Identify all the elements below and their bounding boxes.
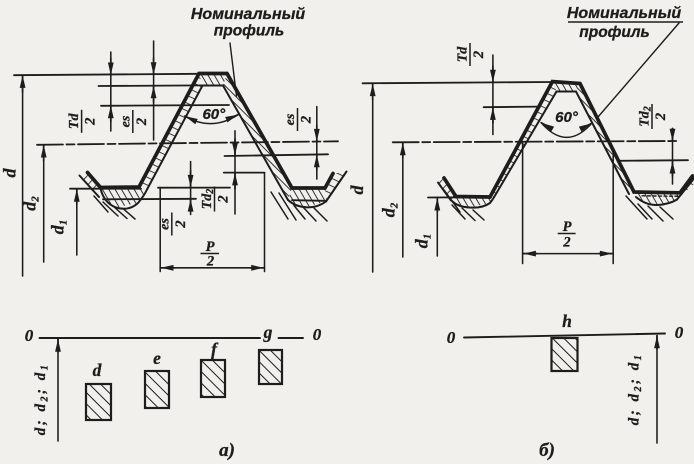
svg-text:2: 2 [562,235,570,251]
right figure: leader line [598,23,679,117]
right figure: label Td/2 rotated [456,43,488,66]
svg-text:2: 2 [83,118,99,126]
left figure: hatch band far-left stub [80,173,101,194]
left figure: dimension es/2 root with arrows [190,162,192,215]
left figure: hatch band crest [199,74,227,86]
bottom left: tolerance zone d [86,384,111,420]
left figure: tolerance stub far-left [80,176,100,198]
svg-text:2: 2 [299,116,315,124]
svg-text:0: 0 [313,325,322,344]
right figure: P/2 dimension line with arrows [523,253,614,255]
right figure: dimension Td/2 with arrows [492,55,494,135]
svg-text:Td: Td [456,46,471,63]
left figure: label d rotated [0,168,20,178]
svg-text:d: d [93,360,102,380]
left figure: hatch band right root [288,188,326,207]
svg-text:а): а) [219,440,235,461]
left figure: label es/2 rotated (crest) [118,110,150,133]
left figure: P/2 left extension [159,189,161,272]
right figure: line d2-Td2 [618,159,688,162]
svg-text:60°: 60° [202,106,226,123]
left figure: shading strokes outside right-root flank [271,192,296,220]
left figure: line d2+es [225,154,329,156]
right figure: tolerance profile left root arc [452,197,494,207]
left figure: dimension Td2/2 with arrows [234,131,236,214]
svg-text:0: 0 [675,323,684,342]
left figure: line d2-Td2 [224,172,265,174]
left figure: label d2 rotated [20,196,42,211]
left figure: line d-Td [101,104,229,107]
svg-text:2: 2 [173,220,189,228]
bottom left: label d;d2;d1 rotated [33,363,51,436]
svg-text:60°: 60° [555,109,579,126]
right figure: tolerance profile right root arc [636,197,677,205]
right figure: hatch band far-left stub [438,178,456,201]
right figure: dimension Td2/2 with arrows [672,129,674,185]
right figure: line d-Td [484,106,540,109]
right figure: dimension d2 vertical with arrow [402,143,404,257]
left figure: line d1 reference at root [158,187,230,189]
left figure: leader line [230,43,237,96]
right figure: dimension d vertical with arrow [372,84,374,272]
bottom left: tolerance zone e [145,371,169,408]
svg-text:e: e [153,348,161,368]
left figure: label Td2/2 rotated [200,187,232,212]
left figure: tolerance profile right root arc [288,200,326,207]
right figure: tolerance stub far-left [438,183,451,201]
right figure: shading strokes below right root [626,196,673,221]
left figure: line d crest extension [14,74,199,75]
svg-text:h: h [562,311,572,331]
svg-text:Td: Td [67,113,82,130]
right figure: pitch line d2 dash-dot [393,141,679,142]
right figure: hatch band crest [552,82,580,92]
left figure: label es/2 rotated (root) [157,213,189,236]
right figure: hatch band far-right stub [677,175,694,200]
right figure: label d rotated [347,185,367,195]
right figure: tolerance stub far-right [677,179,694,200]
left figure: hatch band right flank [223,74,292,201]
svg-text:2: 2 [471,51,487,59]
bottom left: axis 0-0 [40,337,261,339]
left figure: pitch line d2 dash-dot [37,141,338,145]
left figure: tolerance profile inner flanks and crest [147,86,288,201]
left figure: P/2 dimension line with arrows [160,267,264,269]
svg-text:es: es [118,115,133,127]
svg-text:б): б) [539,440,555,461]
left figure: label d1 rotated [48,220,70,235]
svg-text:Номинальный: Номинальный [567,5,681,22]
right figure: dimension d1 vertical with arrow [436,198,438,256]
svg-text:2: 2 [653,113,669,121]
svg-text:0: 0 [447,328,456,347]
right figure: tolerance profile inner flanks and crest [494,92,629,198]
svg-text:es: es [283,113,298,125]
left figure: hatch band far-right stub [325,172,347,202]
svg-text:es: es [157,218,172,230]
right figure: hatch band left root [452,197,494,208]
svg-text:2: 2 [134,118,150,126]
svg-text:2: 2 [216,195,232,203]
right figure: line d1 [428,196,470,198]
bottom left: arrow for d;d2;d1 [57,339,59,441]
left figure: hatch band left flank [139,74,203,190]
bottom right: axis 0-0 [464,334,665,338]
right figure: label d2 rotated [379,202,401,217]
svg-text:0: 0 [25,326,34,345]
right figure: P/2 left extension [522,142,524,264]
left figure: dimension es/2 pitch-right with arrows [316,107,318,180]
left figure: tolerance stub far-right [326,172,347,202]
svg-text:P: P [563,219,572,235]
left figure: P/2 right extension [264,173,266,272]
left figure: 60 degree arc with arrows [185,115,239,124]
left figure: shading strokes below right root [294,206,327,222]
left figure: chord line right root [292,199,325,202]
left figure: nominal thread profile (thick) [88,74,334,189]
left figure: line d1+es [103,198,196,201]
svg-text:профиль: профиль [579,24,649,41]
right figure: hatch band right flank [576,84,634,195]
svg-text:Номинальный: Номинальный [191,6,305,23]
bottom right: label d;d2;d1 rotated [627,353,645,426]
left figure: dimension d1 vertical with arrow [76,190,78,256]
bottom right: arrow for d;d2;d1 [656,336,658,444]
right figure: dashed chord right root [642,195,678,198]
svg-text:d: d [0,168,20,178]
left figure: label es/2 rotated (pitch right) [283,108,315,131]
left figure: shading strokes below left root [94,196,135,219]
right figure: hatch band right root [634,192,680,205]
right figure: 60 degree arc with arrows [541,123,592,138]
left figure: dimension es/2 crest with arrows [153,41,155,140]
left figure: label Td/2 rotated [67,110,99,133]
svg-text:g: g [263,322,273,342]
left figure: line d1 [70,188,141,190]
right figure: line d crest extension [363,82,553,83]
left figure: tolerance profile left root arc [101,189,148,209]
left figure: dimension d2 vertical with arrow [43,146,45,263]
right figure: hatch band left flank [490,82,557,198]
right figure: underline of label [568,21,683,23]
right figure: shading strokes below left root [444,190,484,221]
right figure: label Td2/2 rotated [638,104,670,129]
left figure: hatch band left root [98,187,147,208]
bottom right: tolerance zone h [552,338,578,371]
bottom left: tolerance zone g [259,350,282,384]
svg-text:2: 2 [206,254,214,270]
svg-text:d: d [347,185,367,195]
right figure: label d1 rotated [412,234,434,249]
right figure: nominal thread profile (thick) [444,82,693,197]
right figure: P/2 right extension [612,148,614,263]
left figure: dimension d vertical with arrow [22,76,24,276]
left figure: line d+es [99,84,203,87]
left figure: dimension Td/2 with arrows [110,52,112,131]
bottom left: tolerance zone f [201,360,225,397]
svg-text:профиль: профиль [214,23,284,40]
